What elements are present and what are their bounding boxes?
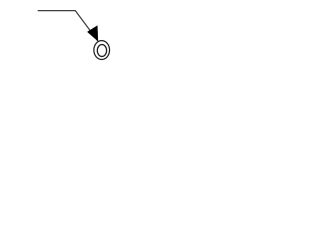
arrowhead: [87, 26, 98, 41]
node inner ring: [97, 45, 106, 57]
wire: [38, 11, 98, 41]
node outer ring: [94, 41, 110, 60]
